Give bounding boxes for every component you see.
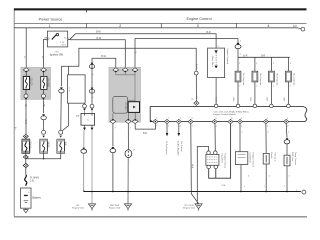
wire ECM d5 to sensor top right xyxy=(214,124,216,151)
fuse AM1 xyxy=(41,72,47,89)
svg-text:No.3 Injector: No.3 Injector xyxy=(275,74,278,86)
connector symbol on ignition-feed drop column xyxy=(59,87,64,93)
ECM-A internal stubs to bottom diamonds xyxy=(112,113,114,119)
ground triangle 3 xyxy=(195,204,202,211)
svg-text:C16, C18, C12, E6(A), E7(B), E: C16, C18, C12, E6(A), E7(B), E8(C) xyxy=(214,110,249,113)
injector 1 xyxy=(235,57,245,104)
connector column from relay right output xyxy=(84,103,86,104)
wire ECM-A d1 to check connector xyxy=(112,124,114,147)
ECM-A top diamond 2 xyxy=(122,68,128,73)
plug symbol on left column xyxy=(81,148,87,154)
ignition switch arm xyxy=(68,34,76,40)
svg-text:IGT IGF 1: IGT IGF 1 xyxy=(124,103,126,111)
svg-text:7 ST1: 7 ST1 xyxy=(60,44,66,46)
svg-text:B-W: B-W xyxy=(97,37,102,40)
camshaft sensor 4-terminal component xyxy=(206,151,219,169)
wire to ground triangle 2 xyxy=(127,158,129,204)
relay box top terminal stub xyxy=(68,66,70,75)
oval connector xyxy=(125,150,132,158)
section divider tick below bar xyxy=(86,10,88,12)
svg-text:B-R: B-R xyxy=(249,98,251,102)
ECM-A bottom diamond 2 xyxy=(125,119,131,124)
inline connector pair on column 2 xyxy=(41,114,46,120)
svg-text:Cut Control: Cut Control xyxy=(180,141,183,152)
svg-text:IG: IG xyxy=(64,37,67,39)
svg-text:B-W: B-W xyxy=(96,30,101,33)
FL row: fusible link 1 (dark) xyxy=(22,134,30,153)
injector 2 xyxy=(252,57,262,104)
ECM bottom diamonds xyxy=(153,119,289,123)
svg-text:1M: 1M xyxy=(293,24,297,28)
svg-text:B-R: B-R xyxy=(261,55,265,57)
tie wire below FL row xyxy=(26,153,61,159)
internal tie wire of ECM-A xyxy=(116,72,135,75)
bus right end circle xyxy=(302,190,306,194)
svg-text:Engine Control Module: Engine Control Module xyxy=(214,113,237,116)
ground bus xyxy=(84,190,301,191)
wire ECM-A d3 jog to ECM-B xyxy=(135,124,155,130)
wire B to ECM-A diamond xyxy=(70,40,125,68)
battery xyxy=(21,188,32,208)
crankshaft sensor box xyxy=(239,124,241,152)
relay feed wire (y=48.3) xyxy=(61,48,196,71)
svg-text:Position Sensor: Position Sensor xyxy=(224,154,227,169)
svg-text:Knock: Knock xyxy=(270,153,272,160)
svg-text:W02 W-B: W02 W-B xyxy=(110,205,120,207)
junction connector block xyxy=(81,113,95,125)
svg-text:30A AM2: 30A AM2 xyxy=(47,78,50,88)
battery feed connector xyxy=(23,159,28,168)
fusible link 2 xyxy=(40,139,48,153)
battery ground xyxy=(23,208,28,213)
svg-text:EGR Gas: EGR Gas xyxy=(291,152,293,161)
sensor bottom routing to ECM d6 xyxy=(209,124,231,178)
numbers band bottom line / main feed wire xyxy=(14,28,301,29)
wire fuse2 down to connector xyxy=(43,100,45,113)
ECM top circles xyxy=(214,104,218,108)
arrow stub wire 1 (to other system) xyxy=(166,124,168,133)
ignition switch box xyxy=(47,31,67,47)
svg-text:Engine Gnd: Engine Gnd xyxy=(109,208,121,210)
ignition key symbol xyxy=(52,33,59,39)
ECM ground wire to triangle 3 xyxy=(191,124,199,204)
wire C left leg down to ECM-A diamond xyxy=(134,39,136,68)
svg-text:No.2 Injector: No.2 Injector xyxy=(259,74,262,86)
diamond under FL1 xyxy=(23,155,28,159)
injector feed connector symbol xyxy=(235,43,241,49)
svg-text:AM1: AM1 xyxy=(63,142,66,147)
fuse box diamond terminal 2 xyxy=(41,68,47,73)
wire to fuse row circle xyxy=(43,120,45,130)
wire C from corner to injector feed xyxy=(135,38,238,40)
svg-text:Noise Filter: Noise Filter xyxy=(211,56,214,67)
svg-text:2.0L: 2.0L xyxy=(30,180,35,182)
svg-text:No.4 Injector: No.4 Injector xyxy=(292,74,295,86)
svg-text:W-R: W-R xyxy=(24,120,26,125)
center gray ECM-A box xyxy=(109,67,141,122)
wire down to ECM diamond xyxy=(195,75,197,101)
ECM-A bottom diamond 3 xyxy=(132,119,138,124)
branch to connector column (y=58.3) xyxy=(92,58,116,67)
svg-text:B-R: B-R xyxy=(283,98,285,102)
wire from ignition AM down to fuse AM1 xyxy=(44,39,48,67)
svg-text:Camshaft: Camshaft xyxy=(221,154,224,163)
svg-text:4: 4 xyxy=(267,24,269,28)
terminal micro labels below diamonds xyxy=(156,126,289,128)
svg-text:(Ignition System): (Ignition System) xyxy=(226,49,229,65)
ECM-A bottom diamond 1 xyxy=(110,119,116,124)
svg-text:Battery: Battery xyxy=(32,195,41,199)
svg-text:Temp. Sensor: Temp. Sensor xyxy=(294,152,297,165)
wire fuse1 down to FL row xyxy=(25,100,27,134)
terminal numbers inside ECM above bottom diamonds xyxy=(156,118,289,120)
wire down col3 xyxy=(60,66,62,86)
noise filter bottom wire to ECM xyxy=(215,78,217,105)
right column continues to ground triangle 1 xyxy=(91,130,93,203)
sensor top-left ground loop xyxy=(197,147,208,204)
svg-text:To A/C Amplifier: To A/C Amplifier xyxy=(177,141,180,156)
svg-text:B-R: B-R xyxy=(232,98,234,102)
noise filter internals xyxy=(214,50,217,53)
svg-text:2.0L A: 2.0L A xyxy=(29,142,32,149)
connector column from branch xyxy=(91,58,93,104)
svg-text:B-W: B-W xyxy=(101,55,106,58)
svg-text:W-B: W-B xyxy=(215,98,217,103)
column divider tick B xyxy=(160,23,162,27)
fuse box diamond terminal 1 xyxy=(23,68,29,73)
rounded sub module xyxy=(113,96,128,113)
svg-text:NE G22 +: NE G22 + xyxy=(126,103,128,112)
column divider tick C xyxy=(236,23,238,27)
off-page connector circle top right xyxy=(301,27,305,31)
svg-text:B-R: B-R xyxy=(206,31,210,34)
fuse bottom circle 1 xyxy=(25,89,27,94)
injector 3 xyxy=(269,57,279,104)
arrow stub wire 2 xyxy=(178,124,180,133)
ground triangle 2 xyxy=(124,204,131,211)
dark sub module xyxy=(128,102,139,113)
svg-text:W-B: W-B xyxy=(191,164,193,169)
bus junction dots xyxy=(91,191,93,193)
relay bottom-left output diagonal to col3 xyxy=(61,103,68,131)
plug symbol on col 112.9 xyxy=(110,147,116,153)
gray fuse box xyxy=(21,67,51,99)
svg-text:15A EFI: 15A EFI xyxy=(29,78,32,87)
frame left border xyxy=(13,8,15,216)
svg-text:B-R: B-R xyxy=(266,98,268,102)
micro labels above ECM top terminals xyxy=(191,98,285,102)
column divider tick A xyxy=(86,23,88,27)
circle terminal col3 xyxy=(59,130,63,134)
injector 4 xyxy=(286,57,296,104)
svg-text:Engine Control: Engine Control xyxy=(186,17,211,21)
title black bar xyxy=(14,8,307,10)
EGR temp sensor with connector xyxy=(285,124,288,138)
svg-text:B-R: B-R xyxy=(143,133,147,135)
wire from main feed down to fuse AM2 xyxy=(25,28,27,68)
wire ECM-A d2 to oval connector xyxy=(127,124,129,150)
svg-text:Engine Gnd: Engine Gnd xyxy=(72,208,84,210)
ECM-A top diamond 3 xyxy=(132,68,138,73)
svg-text:Engine Gnd: Engine Gnd xyxy=(183,208,195,210)
arrows below junction block xyxy=(83,128,86,131)
svg-text:Ignition SW: Ignition SW xyxy=(50,53,64,57)
svg-text:ET1 W-B: ET1 W-B xyxy=(185,205,194,207)
fusible link MAIN (S symbol) xyxy=(25,175,27,186)
ECM main box outline xyxy=(150,107,307,122)
wire to fusible link main xyxy=(25,168,27,175)
fusible link 3 xyxy=(57,139,65,153)
fuse EFI xyxy=(23,72,29,89)
EFI main relay box xyxy=(68,75,86,103)
svg-text:2: 2 xyxy=(119,24,121,28)
knock sensor xyxy=(265,124,267,154)
fuse bottom circle 2 xyxy=(42,89,44,94)
svg-text:No.1 Injector: No.1 Injector xyxy=(242,74,245,86)
svg-text:Sensor 1: Sensor 1 xyxy=(273,153,276,162)
svg-text:B-R: B-R xyxy=(243,55,247,57)
ECM top diamond xyxy=(194,101,199,105)
micro marks above ground bus xyxy=(244,176,291,189)
svg-text:3: 3 xyxy=(197,24,199,28)
circle terminal col2 xyxy=(42,130,46,134)
svg-text:Power Source: Power Source xyxy=(39,17,63,21)
svg-text:To Tachometer: To Tachometer xyxy=(165,141,168,155)
inline connector sym 1 xyxy=(89,63,94,69)
inline connector sym 2 xyxy=(89,88,94,94)
svg-text:FL MAIN: FL MAIN xyxy=(30,176,39,179)
svg-text:Crankshaft: Crankshaft xyxy=(249,153,252,163)
wire A (B-R) to noise filter xyxy=(75,34,216,48)
frame bottom border xyxy=(14,216,307,218)
left column continues to bus corner xyxy=(83,130,85,147)
svg-text:EC: EC xyxy=(76,205,79,207)
svg-text:Position Sensor: Position Sensor xyxy=(252,153,255,168)
circle connector on relay feed column xyxy=(194,71,198,75)
injector bus xyxy=(238,56,290,58)
title band bottom line xyxy=(14,22,307,24)
noise filter box xyxy=(208,48,225,78)
wire from connector to injector bus xyxy=(237,49,239,58)
ground triangle 1 xyxy=(88,204,95,211)
svg-text:MAIN: MAIN xyxy=(46,142,49,148)
ECM-A top diamond 1 xyxy=(113,68,119,73)
svg-text:1: 1 xyxy=(49,24,51,28)
